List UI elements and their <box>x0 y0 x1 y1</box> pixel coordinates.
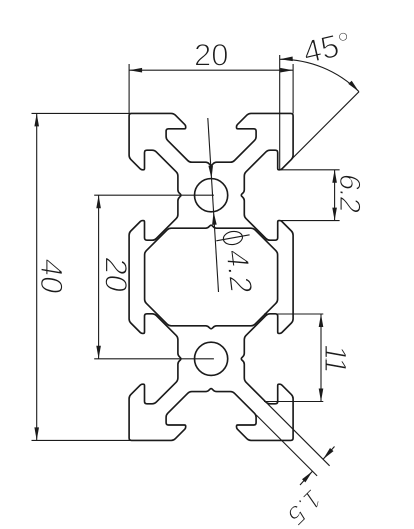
svg-text:6.2: 6.2 <box>333 171 366 215</box>
svg-text:20: 20 <box>194 38 228 73</box>
svg-text:20: 20 <box>99 255 134 296</box>
svg-text:40: 40 <box>34 256 69 297</box>
svg-text:4.2: 4.2 <box>219 249 260 295</box>
